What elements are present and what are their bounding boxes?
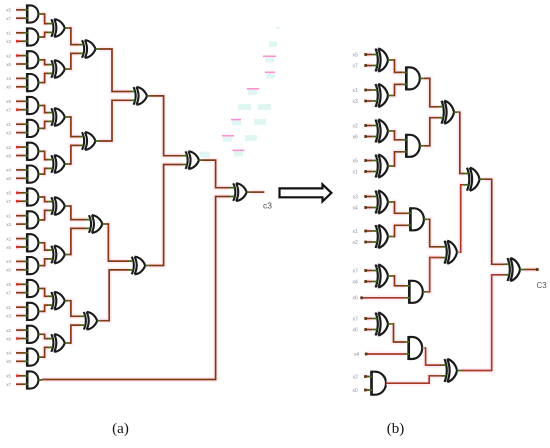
input wire x3 (A2 in2) bbox=[6, 39, 24, 44]
svg-text:x6: x6 bbox=[353, 296, 359, 302]
wire A5 out to X2_3 in1 bbox=[42, 106, 48, 113]
wire X3_1 out to X4_1 in1 bbox=[99, 49, 131, 92]
wire X2_7 out to X3_4 in1 bbox=[68, 301, 80, 317]
wire X2_2 out to X3_1 in2 bbox=[68, 53, 79, 69]
XOR gate XC4 bbox=[442, 359, 462, 382]
input wire x7 (A5 in2) bbox=[6, 108, 24, 113]
input wire x6 direct to AB4 in2 (long) bbox=[353, 296, 406, 302]
input wire x6 (A7 in2) bbox=[6, 153, 24, 158]
wire A13 out to X2_7 in1 bbox=[42, 289, 48, 297]
XOR gate X2_1 bbox=[48, 19, 68, 37]
wire X2_5 out to X3_3 in1 bbox=[68, 206, 86, 220]
wire A9 out to X2_5 in1 bbox=[42, 197, 48, 202]
AND gate A11 bbox=[24, 233, 42, 252]
AND gate AB5 bbox=[405, 336, 426, 360]
AND gate A13 bbox=[24, 279, 42, 298]
wire XB5 out to AB3 in1 bbox=[393, 202, 407, 213]
AND gate A3 bbox=[24, 50, 42, 69]
svg-text:x5: x5 bbox=[6, 8, 11, 13]
wire A10 out to X2_5 in2 bbox=[42, 210, 48, 220]
wire X2_3 out to X3_2 in1 bbox=[68, 117, 79, 137]
svg-text:x7: x7 bbox=[353, 316, 359, 322]
svg-text:x0: x0 bbox=[6, 176, 11, 181]
wire A3 out to X2_2 in1 bbox=[42, 60, 48, 65]
svg-text:x2: x2 bbox=[6, 145, 11, 150]
wire A14 out to X2_7 in2 bbox=[42, 305, 48, 311]
svg-text:C3: C3 bbox=[537, 281, 548, 290]
input wire x5 (A13 in1) bbox=[6, 282, 24, 287]
input wire x6 (A11 in2) bbox=[6, 245, 24, 250]
wire XB8 out to AB5 in1 bbox=[393, 324, 406, 342]
input wire x3 (A6 in2) bbox=[6, 130, 24, 135]
wire A6 out to X2_3 in2 bbox=[42, 121, 48, 128]
wire A17 out to X6 in2 (long) bbox=[42, 197, 230, 380]
input wire x7 (XB1 in2) bbox=[353, 63, 373, 69]
input wire x6 (A15 in2) bbox=[6, 336, 24, 341]
input wire x4 (A16 in1) bbox=[6, 351, 24, 356]
wire A16 out to X2_8 in2 bbox=[42, 347, 48, 357]
XOR gate X3_3 bbox=[86, 215, 106, 233]
input wire x1 (XB6 in1) bbox=[353, 229, 373, 235]
wire A4 out to X2_2 in2 bbox=[42, 73, 48, 82]
svg-text:x3: x3 bbox=[6, 130, 11, 135]
wire XC1 out to XC2 in1 bbox=[459, 112, 465, 173]
XOR gate XC2 bbox=[464, 168, 484, 191]
input wire x0 (A8 in2) bbox=[6, 176, 24, 181]
input wire x2 (A3 in1) bbox=[6, 53, 24, 58]
AND gate AB2 bbox=[403, 134, 424, 158]
wire X2_8 out to X3_4 in2 bbox=[68, 325, 80, 343]
XOR gate X3_1 bbox=[79, 40, 99, 58]
svg-text:x5: x5 bbox=[6, 191, 11, 196]
wire A1 out to X2_1 in1 bbox=[42, 14, 48, 24]
wire X2_1 out to X3_1 in1 bbox=[68, 28, 79, 45]
svg-text:x7: x7 bbox=[353, 268, 359, 274]
block arrow bbox=[280, 184, 332, 201]
input wire x0 (AB6 in2) bbox=[353, 388, 369, 394]
input wire x4 direct to AB5 in2 (long) bbox=[354, 352, 405, 358]
input wire x4 (A12 in1) bbox=[6, 259, 24, 264]
svg-text:x1: x1 bbox=[6, 214, 11, 219]
input wire x2 (A11 in1) bbox=[6, 236, 24, 241]
svg-text:x5: x5 bbox=[353, 158, 359, 164]
wire X3_3 out to X4_2 in1 bbox=[106, 224, 129, 261]
svg-text:x0: x0 bbox=[6, 268, 11, 273]
XOR gate XD (final of b) bbox=[505, 258, 525, 281]
AND gate A5 bbox=[24, 96, 42, 115]
svg-text:x3: x3 bbox=[6, 39, 11, 44]
svg-text:x2: x2 bbox=[353, 374, 359, 380]
svg-text:x0: x0 bbox=[353, 388, 359, 394]
wire X3_2 out to X4_1 in2 bbox=[99, 100, 131, 141]
input wire x1 (A2 in1) bbox=[6, 31, 24, 36]
svg-text:x1: x1 bbox=[6, 122, 11, 127]
XOR gate XC3 bbox=[442, 241, 462, 264]
AND gate AB3 bbox=[407, 207, 428, 231]
svg-text:(a): (a) bbox=[112, 421, 129, 437]
svg-text:x5: x5 bbox=[353, 52, 359, 58]
XOR gate X2_4 bbox=[48, 155, 68, 173]
svg-text:x1: x1 bbox=[6, 31, 11, 36]
AND gate A4 bbox=[24, 73, 42, 92]
svg-text:x6: x6 bbox=[6, 336, 11, 341]
XOR gate X2_2 bbox=[48, 60, 68, 78]
svg-text:x6: x6 bbox=[6, 62, 11, 67]
input wire x2 (A15 in1) bbox=[6, 328, 24, 333]
input wire x5 (XB4 in1) bbox=[353, 158, 373, 164]
XOR gate X5 bbox=[182, 151, 202, 169]
wire A8 out to X2_4 in2 bbox=[42, 168, 48, 174]
XOR gate X2_6 bbox=[48, 246, 68, 264]
input wire x6 (XB3 in2) bbox=[353, 134, 373, 140]
svg-text:x5: x5 bbox=[6, 282, 11, 287]
XOR gate X2_8 bbox=[48, 334, 68, 352]
input wire x2 (XB3 in1) bbox=[353, 123, 373, 129]
wire X2_4 out to X3_2 in2 bbox=[68, 145, 79, 164]
input wire x6 (XB8 in2) bbox=[353, 327, 373, 333]
AND gate A2 bbox=[24, 27, 42, 46]
AND gate A12 bbox=[24, 256, 42, 275]
svg-text:x4: x4 bbox=[6, 76, 11, 81]
wire AB2 out to XC1 in2 bbox=[424, 118, 439, 146]
svg-text:x4: x4 bbox=[353, 205, 359, 211]
wire X6 out (c3 net) bbox=[250, 190, 264, 195]
svg-text:x1: x1 bbox=[353, 88, 359, 94]
AND gate A10 bbox=[24, 210, 42, 229]
AND gate AB1 bbox=[403, 66, 424, 90]
XOR gate X4_1 bbox=[130, 87, 150, 105]
wire XD out (C3 net) bbox=[525, 268, 539, 271]
XOR gate XB2 bbox=[373, 84, 393, 107]
svg-text:c3: c3 bbox=[263, 201, 272, 211]
wire X5 out to X6 in1 bbox=[203, 160, 231, 188]
input wire x7 (A13 in2) bbox=[6, 291, 24, 296]
svg-text:x4: x4 bbox=[6, 351, 11, 356]
wire X4_2 out to X5 in2 bbox=[149, 165, 183, 266]
wire XC3 out to XC2 in2 bbox=[461, 185, 464, 252]
XOR gate X6 (final of a) bbox=[230, 183, 250, 201]
input wire x5 (A1 in1) bbox=[6, 8, 24, 13]
XOR gate XB6 bbox=[373, 225, 393, 248]
input wire x5 (A5 in1) bbox=[6, 99, 24, 104]
wire X4_1 out to X5 in1 bbox=[151, 96, 183, 156]
node c3 output label (a) bbox=[263, 201, 272, 211]
wire AB4 out to XC3 in2 bbox=[427, 258, 442, 292]
XOR gate XC1 bbox=[439, 101, 459, 124]
wire A2 out to X2_1 in2 bbox=[42, 32, 48, 37]
input wire x7 (XB8 in1) bbox=[353, 316, 373, 322]
AND gate A14 bbox=[24, 302, 42, 321]
svg-text:x2: x2 bbox=[353, 123, 359, 129]
svg-text:x1: x1 bbox=[353, 229, 359, 235]
wire A7 out to X2_4 in1 bbox=[42, 151, 48, 159]
wire A12 out to X2_6 in2 bbox=[42, 259, 48, 266]
AND gate A9 bbox=[24, 187, 42, 206]
input wire x3 (A14 in2) bbox=[6, 313, 24, 318]
XOR gate XB5 bbox=[373, 191, 393, 214]
svg-text:(b): (b) bbox=[387, 421, 405, 437]
svg-text:x7: x7 bbox=[6, 16, 11, 21]
svg-text:x6: x6 bbox=[6, 245, 11, 250]
input wire x7 (XB7 in1) bbox=[353, 268, 373, 274]
XOR gate XB3 bbox=[373, 120, 393, 143]
AND gate A8 bbox=[24, 165, 42, 184]
input wire x1 (A10 in1) bbox=[6, 214, 24, 219]
svg-text:x7: x7 bbox=[6, 291, 11, 296]
svg-text:x2: x2 bbox=[6, 236, 11, 241]
svg-text:x3: x3 bbox=[6, 222, 11, 227]
input wire x1 (XB4 in2) bbox=[353, 169, 373, 175]
input wire x0 (A4 in2) bbox=[6, 85, 24, 90]
wire XB2 out to AB1 in2 bbox=[393, 84, 403, 95]
input wire x6 (A3 in2) bbox=[6, 62, 24, 67]
svg-text:x7: x7 bbox=[353, 63, 359, 69]
input wire x5 (XB1 in1) bbox=[353, 52, 373, 58]
svg-text:x4: x4 bbox=[6, 168, 11, 173]
wire AB3 out to XC3 in1 bbox=[428, 219, 442, 247]
wire XB7 out to AB4 in1 bbox=[393, 276, 406, 286]
input wire x4 (A8 in1) bbox=[6, 168, 24, 173]
wire XC2 out to XD in1 bbox=[484, 179, 505, 264]
svg-text:x6: x6 bbox=[353, 327, 359, 333]
input wire x4 (XB5 in2) bbox=[353, 205, 373, 211]
input wire x3 (A10 in2) bbox=[6, 222, 24, 227]
AND gate A15 bbox=[24, 325, 42, 344]
XOR gate XB1 bbox=[373, 49, 393, 72]
input wire x1 (A14 in1) bbox=[6, 305, 24, 310]
input wire x7 (A9 in2) bbox=[6, 199, 24, 204]
svg-text:x2: x2 bbox=[6, 328, 11, 333]
XOR gate X3_2 bbox=[79, 132, 99, 150]
svg-text:x3: x3 bbox=[353, 99, 359, 105]
svg-text:x2: x2 bbox=[353, 240, 359, 246]
input wire x7 (A1 in2) bbox=[6, 16, 24, 21]
AND gate A7 bbox=[24, 142, 42, 161]
input wire x4 (A4 in1) bbox=[6, 76, 24, 81]
input wire x2 (AB6 in1) bbox=[353, 374, 369, 380]
input wire x1 (A6 in1) bbox=[6, 122, 24, 127]
AND gate A16 bbox=[24, 348, 42, 367]
input wire x5 (A9 in1) bbox=[6, 191, 24, 196]
input wire x2 (A7 in1) bbox=[6, 145, 24, 150]
wire XB1 out to AB1 in1 bbox=[393, 60, 403, 72]
wire AB5 out to XC4 in1 bbox=[426, 348, 442, 365]
wire XB4 out to AB2 in2 bbox=[393, 152, 403, 166]
AND gate A6 bbox=[24, 119, 42, 138]
AND gate A1 bbox=[24, 4, 42, 23]
AND gate AB4 bbox=[406, 280, 427, 304]
svg-text:x7: x7 bbox=[6, 199, 11, 204]
input wire x3 (XB2 in2) bbox=[353, 99, 373, 105]
svg-text:x4: x4 bbox=[354, 352, 360, 358]
XOR gate X2_7 bbox=[48, 292, 68, 310]
svg-text:x0: x0 bbox=[6, 85, 11, 90]
svg-text:x7: x7 bbox=[6, 108, 11, 113]
svg-text:x1: x1 bbox=[6, 305, 11, 310]
wire AB6 out to XC4 in2 (long) bbox=[386, 376, 442, 383]
XOR gate X2_3 bbox=[48, 108, 68, 126]
XOR gate X4_2 bbox=[129, 257, 149, 275]
XOR gate XB4 bbox=[373, 155, 393, 178]
AND gate A17 bbox=[24, 370, 42, 389]
svg-text:x1: x1 bbox=[353, 169, 359, 175]
svg-text:x4: x4 bbox=[353, 279, 359, 285]
input wire x0 (A16 in2) bbox=[6, 359, 24, 364]
svg-text:x7: x7 bbox=[6, 382, 11, 387]
svg-text:x4: x4 bbox=[6, 259, 11, 264]
wire A15 out to X2_8 in1 bbox=[42, 334, 48, 338]
svg-text:x5: x5 bbox=[6, 374, 11, 379]
svg-text:x6: x6 bbox=[6, 153, 11, 158]
svg-text:x3: x3 bbox=[353, 194, 359, 200]
XOR gate X3_4 bbox=[81, 312, 101, 330]
input wire x0 (A12 in2) bbox=[6, 268, 24, 273]
svg-text:x2: x2 bbox=[6, 53, 11, 58]
svg-text:x0: x0 bbox=[6, 359, 11, 364]
caption (b) bbox=[387, 421, 405, 437]
wire A11 out to X2_6 in1 bbox=[42, 243, 48, 250]
svg-text:x3: x3 bbox=[6, 313, 11, 318]
input wire x1 (XB2 in1) bbox=[353, 88, 373, 94]
input wire x4 (XB7 in2) bbox=[353, 279, 373, 285]
input wire x3 (XB5 in1) bbox=[353, 194, 373, 200]
svg-text:x5: x5 bbox=[6, 99, 11, 104]
wire XC4 out to XD in2 (long) bbox=[462, 275, 505, 371]
caption (a) bbox=[112, 421, 129, 437]
wire XB6 out to AB3 in2 bbox=[393, 225, 407, 236]
wire AB1 out to XC1 in1 bbox=[424, 78, 439, 106]
svg-text:x6: x6 bbox=[353, 134, 359, 140]
input wire x5 (A17 in1) bbox=[6, 374, 24, 379]
wire X2_6 out to X3_3 in2 bbox=[68, 228, 86, 254]
wire X3_4 out to X4_2 in2 bbox=[101, 270, 129, 321]
input wire x2 (XB6 in2) bbox=[353, 240, 373, 246]
input wire x7 (A17 in2) bbox=[6, 382, 24, 387]
XOR gate XB8 bbox=[373, 313, 393, 336]
AND gate AB6 (bottom of b) bbox=[368, 371, 387, 396]
node C3 output label (b) bbox=[537, 281, 548, 290]
XOR gate X2_5 bbox=[48, 197, 68, 215]
wire XB3 out to AB2 in1 bbox=[393, 131, 403, 140]
XOR gate XB7 bbox=[373, 265, 393, 288]
